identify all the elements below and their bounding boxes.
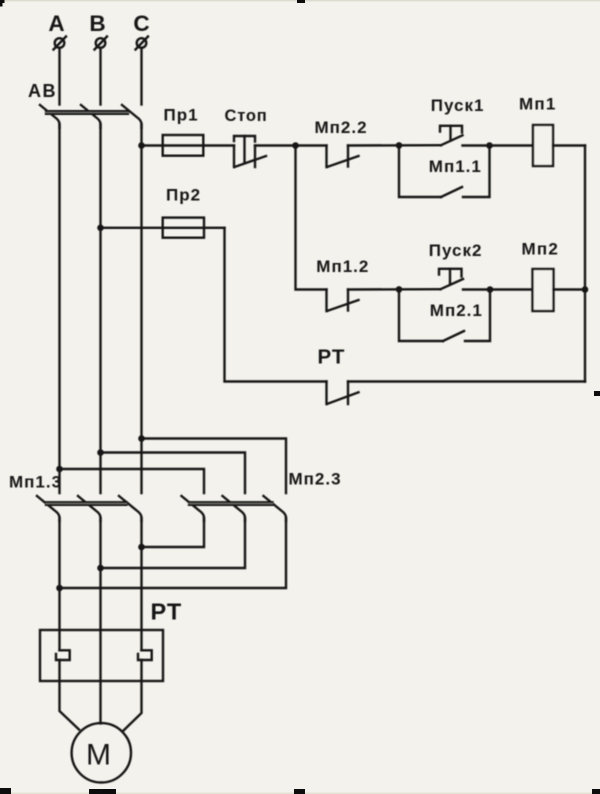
wire Мп1.3 pole3 down	[140, 518, 142, 650]
circuit breaker AB pole 3 blade	[122, 105, 142, 128]
contact Мп2.1 branch	[399, 290, 490, 342]
wire phase C vertical	[140, 124, 142, 493]
wire phase B vertical	[99, 124, 101, 493]
node B terminal	[95, 37, 108, 50]
wire rung1 to Пуск1	[348, 144, 441, 147]
svg-text:Мп2.3: Мп2.3	[289, 470, 342, 489]
node junction B lower	[97, 565, 104, 572]
wire РТ rung right	[348, 380, 585, 382]
svg-text:М: М	[86, 739, 111, 772]
fuse Пр1	[163, 135, 204, 156]
wire motor lead A	[60, 660, 80, 730]
wire rung1 to coil	[463, 144, 534, 146]
node junction A lower	[56, 585, 63, 592]
contactor Мп2.3 pole 1 blade	[182, 496, 205, 521]
node junction Мп2.1 left	[396, 286, 403, 293]
wire crossover A to Мп2.3 pole1	[60, 469, 205, 493]
wire coil Мп2 to right rail	[554, 288, 586, 290]
node C terminal	[136, 37, 149, 50]
fuse Пр2	[163, 218, 204, 238]
circuit breaker AB pole 1 blade	[40, 105, 60, 128]
wire crossover C to Мп2.3 pole3	[142, 439, 287, 494]
wire Пр2 horizontal	[101, 227, 225, 229]
svg-text:Пуск2: Пуск2	[429, 241, 483, 260]
node A terminal	[54, 37, 67, 50]
contactor Мп2.3 pole 3 blade	[264, 496, 287, 521]
wire coil Мп1 to right rail	[553, 144, 585, 146]
svg-text:Мп2: Мп2	[522, 240, 559, 259]
photo artifacts	[0, 0, 600, 1]
contact РТ (NC, thermal)	[327, 382, 359, 405]
svg-text:С: С	[133, 11, 149, 36]
svg-text:Пр2: Пр2	[166, 186, 201, 205]
thermal relay РТ box	[40, 630, 163, 681]
svg-text:Мп2.1: Мп2.1	[430, 301, 483, 320]
wire rung1 middle	[255, 144, 327, 146]
wire Пр2 down to РТ rung	[225, 228, 327, 382]
wire phase A vertical	[58, 124, 60, 493]
wire rung2 to Пуск2	[348, 288, 441, 291]
heater element phase A	[56, 650, 70, 660]
wire rung1 left	[142, 144, 235, 146]
node junction C crossover	[138, 435, 145, 442]
pushbutton Стоп (NC)	[234, 136, 266, 167]
wire Мп1.3 pole2 down	[99, 518, 101, 723]
svg-text:Мп1.2: Мп1.2	[316, 257, 369, 276]
svg-text:А: А	[48, 11, 64, 36]
wire B terminal to breaker	[99, 48, 101, 105]
node junction B Пр2	[97, 225, 104, 232]
contactor Мп2.3 tie bar	[189, 502, 273, 505]
wire C terminal to breaker	[140, 48, 142, 105]
svg-text:Мп1.1: Мп1.1	[429, 157, 482, 176]
circuit breaker AB pole 2 blade	[81, 105, 101, 128]
node junction B crossover	[97, 449, 104, 456]
contactor Мп2.3 pole 2 blade	[223, 496, 246, 521]
node junction C rung1	[138, 142, 145, 149]
wire A terminal to breaker	[58, 48, 60, 105]
node junction Мп1.1 left	[396, 142, 403, 149]
heater element phase C	[138, 650, 152, 660]
contact Мп1.2 (NC)	[327, 290, 359, 312]
wire rung2 to coil	[463, 288, 533, 290]
contactor Мп1.3 pole 2 blade	[78, 496, 101, 521]
wire Мп2.3 pole3 to A	[60, 518, 287, 588]
pushbutton Пуск1 (NO)	[440, 126, 463, 145]
coil Мп2	[533, 269, 554, 311]
node junction Мп2.1 right	[487, 286, 494, 293]
wire Мп2.3 pole2 to B	[101, 518, 246, 568]
contactor Мп1.3 pole 1 blade	[37, 496, 60, 521]
wire right rail	[584, 146, 586, 382]
svg-text:Пуск1: Пуск1	[431, 96, 485, 115]
node junction Мп1.1 right	[486, 142, 493, 149]
contactor Мп1.3 tie bar	[46, 502, 127, 505]
motor M	[72, 723, 131, 782]
contact Мп2.2 (NC)	[327, 146, 359, 168]
contactor Мп1.3 pole 3 blade	[119, 496, 142, 521]
svg-text:Пр1: Пр1	[164, 106, 199, 125]
svg-text:АВ: АВ	[28, 81, 57, 101]
svg-text:В: В	[89, 11, 105, 36]
coil Мп1	[533, 125, 553, 166]
node junction right rail rung2	[582, 286, 589, 293]
svg-text:Стоп: Стоп	[225, 107, 268, 125]
circuit breaker AB tie bar	[46, 111, 128, 114]
wire motor lead C	[123, 660, 142, 731]
svg-text:Мп2.2: Мп2.2	[315, 118, 368, 137]
svg-text:РТ: РТ	[151, 599, 183, 625]
svg-text:Мп1.3: Мп1.3	[9, 473, 62, 492]
wire crossover B to Мп2.3 pole2	[101, 453, 246, 494]
pushbutton Пуск2 (NO)	[439, 269, 463, 289]
wire Мп2.3 pole1 to C	[142, 518, 205, 547]
svg-text:Мп1: Мп1	[519, 95, 556, 114]
contact Мп1.1 branch	[399, 146, 490, 198]
node junction rung1-rung2	[292, 142, 299, 149]
node junction A crossover	[56, 466, 63, 473]
svg-text:РТ: РТ	[318, 346, 346, 369]
wire Мп1.3 pole1 down	[58, 518, 60, 650]
node junction C lower	[138, 544, 145, 551]
wire rung2 feed	[296, 146, 327, 290]
